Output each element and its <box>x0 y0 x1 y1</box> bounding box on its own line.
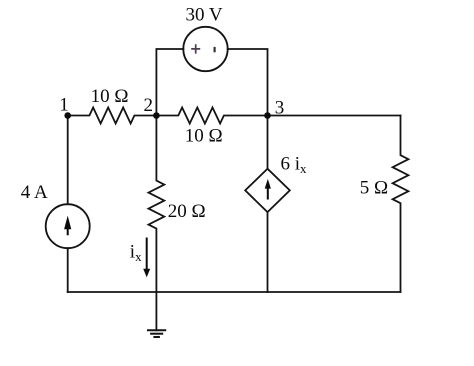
ground bar 2 <box>150 333 163 335</box>
wire from node 2 up to voltage source left terminal <box>156 49 183 116</box>
voltage source V1 30 V <box>183 27 227 71</box>
bottom wire rail <box>68 291 401 293</box>
dependent current source 6ix diamond <box>245 169 290 212</box>
wire node 1 down to 4 A source <box>67 116 69 205</box>
svg-text:6 ix: 6 ix <box>281 154 308 177</box>
arrow inside 4 A current source pointing up <box>64 216 71 236</box>
minus sign inside voltage source <box>214 47 216 52</box>
svg-text:1: 1 <box>59 95 68 116</box>
svg-text:3: 3 <box>275 97 285 118</box>
ground stem <box>155 292 157 330</box>
arrow inside dependent source diamond pointing up <box>265 179 271 200</box>
plus sign inside voltage source <box>191 44 200 53</box>
svg-text:10 Ω: 10 Ω <box>185 125 223 146</box>
wire 4 A source down to bottom rail <box>67 248 69 292</box>
svg-text:4 A: 4 A <box>21 182 48 203</box>
node 2 junction dot <box>153 112 160 119</box>
resistor R3 20 ohm vertical at node 2 (with wires) <box>148 116 164 293</box>
wire from voltage source right terminal down to node 3 <box>228 49 268 116</box>
resistor R2 10 ohm between node 2 and node 3 (with wires) <box>156 108 267 124</box>
svg-text:5 Ω: 5 Ω <box>360 177 388 198</box>
current arrow ix pointing down below 20 ohm resistor <box>143 238 150 278</box>
wire dependent source down to bottom rail <box>267 212 269 292</box>
ground bar 1 <box>147 329 166 331</box>
node 1 junction dot <box>64 112 71 119</box>
node 3 junction dot <box>264 112 271 119</box>
svg-text:30 V: 30 V <box>186 4 223 25</box>
wire from node 3 right to top of 5 ohm branch <box>268 115 401 117</box>
wire node 3 down to dependent source <box>267 116 269 169</box>
svg-text:20 Ω: 20 Ω <box>168 201 206 222</box>
svg-text:2: 2 <box>144 95 154 116</box>
resistor R1 10 ohm between node 1 and node 2 (with wires) <box>68 108 157 124</box>
current source I1 4 A <box>46 204 90 248</box>
resistor R4 5 ohm vertical right branch (with wires) <box>393 116 409 293</box>
svg-text:ix: ix <box>130 242 142 265</box>
svg-text:10 Ω: 10 Ω <box>91 86 129 107</box>
ground bar 3 <box>153 336 160 338</box>
